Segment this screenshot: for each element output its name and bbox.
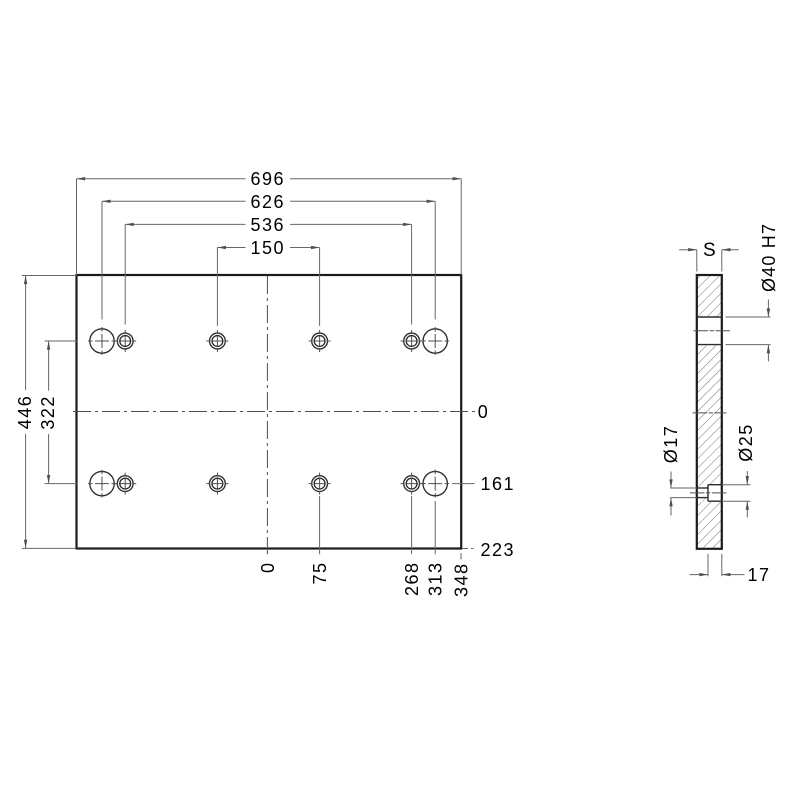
hole big bottom x435.2	[421, 470, 449, 498]
dimension S	[679, 240, 739, 271]
bore 40 centerline	[694, 330, 731, 332]
dimension dia 40 H7	[726, 223, 779, 362]
svg-text:626: 626	[251, 192, 286, 212]
svg-text:Ø25: Ø25	[736, 423, 756, 462]
label 161	[481, 474, 516, 494]
hole small top x411.6	[401, 330, 423, 352]
svg-text:348: 348	[452, 563, 472, 598]
horizontal centerline	[73, 411, 476, 413]
svg-text:Ø40 H7: Ø40 H7	[759, 223, 779, 292]
label 0 right	[478, 402, 490, 422]
bore 40 bottom edge	[697, 344, 722, 346]
tick 75	[319, 496, 321, 554]
hole small top x319.6	[309, 330, 331, 352]
svg-text:161: 161	[481, 474, 516, 494]
svg-text:0: 0	[258, 562, 278, 574]
dimension 696	[77, 169, 462, 275]
leader 161	[452, 483, 475, 485]
svg-text:S: S	[703, 240, 716, 261]
dimension 322	[38, 341, 77, 484]
side view hatching	[697, 276, 721, 548]
hole small bottom x217.4	[206, 473, 228, 495]
dimension 17	[690, 554, 771, 585]
svg-text:536: 536	[251, 215, 286, 235]
tick 348	[460, 553, 462, 560]
svg-text:313: 313	[426, 562, 446, 597]
label 268	[402, 562, 422, 597]
hole small top x125.2	[114, 330, 136, 352]
svg-text:268: 268	[402, 562, 422, 597]
svg-text:75: 75	[310, 562, 330, 585]
bore 40 top edge	[697, 316, 722, 318]
hole small top x217.4	[206, 330, 228, 352]
dimension 536	[125, 215, 411, 325]
svg-text:223: 223	[481, 540, 516, 560]
label 0 bottom	[258, 562, 278, 574]
dimension dia 25	[722, 423, 756, 517]
label 313	[426, 562, 446, 597]
tick 313	[434, 501, 436, 554]
hole big bottom x102	[88, 470, 116, 498]
label 348	[452, 563, 472, 598]
dimension 150	[217, 238, 319, 326]
leader 223	[462, 548, 474, 550]
svg-text:0: 0	[478, 402, 490, 422]
dimension 446	[15, 276, 77, 549]
svg-text:17: 17	[748, 565, 771, 585]
vertical centerline	[266, 276, 268, 554]
svg-text:696: 696	[251, 169, 286, 189]
tick 268	[411, 496, 413, 554]
svg-text:150: 150	[251, 238, 286, 258]
dimension 626	[102, 192, 435, 320]
label 75	[310, 562, 330, 585]
svg-text:446: 446	[15, 395, 35, 430]
hole small bottom x411.6	[401, 473, 423, 495]
hole small bottom x125.2	[114, 473, 136, 495]
hole big top x102	[88, 327, 116, 355]
hole big top x435.2	[421, 327, 449, 355]
plate outline	[77, 275, 462, 549]
label 223	[481, 540, 516, 560]
counterbore centerline	[690, 492, 728, 494]
dimension dia 17	[661, 425, 697, 516]
counterbore hole outline	[697, 485, 722, 502]
svg-text:322: 322	[38, 395, 58, 430]
side mid centerline	[693, 412, 727, 414]
svg-text:Ø17: Ø17	[661, 425, 681, 464]
side bar outline	[697, 275, 722, 549]
hole small bottom x319.6	[309, 473, 331, 495]
